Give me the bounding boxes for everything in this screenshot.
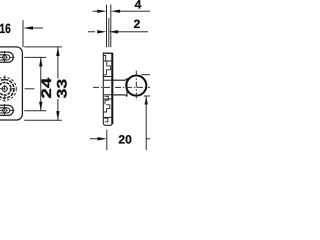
svg-text:2: 2 bbox=[134, 17, 141, 31]
bottom slot hole outer obround bbox=[0, 105, 13, 115]
dimension 33 line upper bbox=[57, 47, 59, 79]
ball diameter up arrow bbox=[145, 96, 148, 104]
right extension line bbox=[145, 96, 147, 150]
side view body left edge with notches bbox=[103, 53, 112, 125]
dimension 4 left arrow bbox=[93, 10, 100, 12]
dimension 20 arrow bbox=[90, 138, 98, 140]
side view top tab bbox=[103, 56, 105, 62]
middle hole horizontal centerline bbox=[0, 88, 16, 90]
bottom hole horizontal centerline bbox=[0, 109, 16, 111]
plate front view outline bbox=[0, 47, 22, 120]
svg-text:20: 20 bbox=[118, 133, 132, 147]
stud horizontal centerline bbox=[93, 86, 150, 88]
side view stud top line through body bbox=[103, 79, 112, 81]
top hole horizontal centerline bbox=[0, 56, 16, 58]
side view serration line 1 bbox=[103, 60, 112, 62]
top slot hole outer obround bbox=[0, 52, 13, 62]
top hole vertical centerline bbox=[4, 51, 6, 64]
svg-text:4: 4 bbox=[135, 0, 142, 12]
dimension 24 line bbox=[40, 57, 42, 110]
dimension 33 top arrow bbox=[56, 47, 59, 56]
ball vertical centerline bbox=[135, 71, 137, 101]
dimension 24 top arrow bbox=[39, 57, 42, 66]
dimension 4 right arrow bbox=[111, 10, 120, 13]
ball left chord bbox=[126, 78, 128, 96]
dimension 33 bottom arrow bbox=[56, 111, 59, 120]
side view squiggle 4 bbox=[104, 118, 108, 122]
side view serration line 2 bbox=[103, 76, 112, 78]
dimension 16 extension line bbox=[22, 20, 24, 47]
side view squiggle 1 bbox=[103, 61, 110, 75]
stud neck chamfer bottom bbox=[126, 95, 127, 97]
middle hole centerline extension line bbox=[25, 88, 35, 90]
bottom hole centerline extension line bbox=[24, 110, 46, 112]
dimension 2 left arrow bbox=[88, 31, 95, 33]
dimension 20 right tick bbox=[146, 138, 150, 140]
side view stud bottom line through body bbox=[103, 94, 112, 96]
ball bottom extension line bbox=[144, 95, 150, 97]
ball top extension line bbox=[141, 74, 150, 76]
dimension 20 left extension line bbox=[106, 130, 108, 150]
plate top edge extension line bbox=[24, 46, 62, 48]
dimension 33 line lower bbox=[57, 99, 59, 120]
svg-text:33: 33 bbox=[55, 78, 70, 98]
middle hole knurled ring inner bbox=[0, 83, 11, 96]
side view top cap bbox=[103, 52, 113, 54]
top hole centerline extension line bbox=[24, 56, 46, 58]
bottom hole vertical centerline bbox=[4, 104, 6, 117]
middle hole vertical centerline bbox=[4, 76, 6, 102]
ball bbox=[126, 76, 146, 96]
middle hole center circle bbox=[2, 86, 7, 91]
dimension 2 right arrow bbox=[109, 30, 118, 33]
side view body right edge thick bbox=[111, 53, 113, 124]
dimension 4 left extension line bbox=[106, 5, 108, 48]
stud neck top line bbox=[112, 79, 125, 81]
stud neck bottom line bbox=[112, 94, 125, 96]
side view squiggle 2 bbox=[105, 96, 109, 104]
side view serration line 4 bbox=[103, 116, 112, 118]
middle hole dashed circle bbox=[0, 77, 16, 100]
top slot hole inner obround bbox=[0, 55, 10, 60]
stud neck chamfer top bbox=[126, 78, 127, 80]
side view serration line 3 bbox=[103, 98, 112, 100]
bottom slot hole center circle bbox=[3, 109, 7, 113]
svg-text:16: 16 bbox=[0, 21, 11, 36]
svg-text:24: 24 bbox=[39, 77, 54, 98]
dimension 4 right extension line bbox=[110, 5, 112, 48]
dimension 2 middle extension line bbox=[108, 18, 110, 47]
side view squiggle 3 bbox=[103, 105, 109, 112]
dimension 24 bottom arrow bbox=[39, 102, 42, 111]
middle hole knurled ring outer bbox=[0, 80, 14, 99]
dimension 16 arrow bbox=[23, 26, 33, 29]
plate bottom edge extension line bbox=[24, 119, 62, 121]
bottom slot hole inner obround bbox=[0, 108, 10, 113]
top slot hole center circle bbox=[3, 56, 7, 60]
